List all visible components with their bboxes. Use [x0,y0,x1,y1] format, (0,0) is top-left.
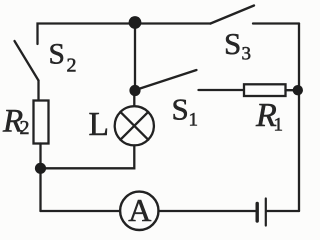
svg-text:A: A [128,192,151,228]
wire node to lamp [133,91,135,107]
svg-text:S: S [49,39,65,71]
lamp L cross [120,112,148,140]
wire left column lower [39,168,41,211]
wire S1 to R1 [199,89,245,91]
wire battery to right wall [267,210,299,212]
wire R2 to node [39,144,41,169]
switch S1 lever [140,70,197,89]
node right junction [293,85,303,95]
svg-text:S: S [224,26,241,61]
wire R1 to right wall [286,89,298,91]
svg-text:2: 2 [20,117,30,139]
svg-text:1: 1 [274,114,284,135]
svg-text:L: L [89,106,109,143]
wire top node to middle node [134,23,136,91]
battery positive plate [265,199,267,226]
wire top left segment [38,24,136,45]
resistor R2 [34,101,49,144]
svg-text:2: 2 [67,55,77,77]
wire top right segment [253,22,299,24]
battery negative plate [256,204,259,222]
resistor R1 [244,84,286,96]
node middle junction [129,85,140,96]
svg-text:3: 3 [242,44,252,65]
svg-text:1: 1 [189,110,199,131]
wire ammeter to battery [159,210,257,212]
wire bottom left segment [41,210,121,212]
lamp L circle [115,106,154,145]
wire top middle segment [135,22,211,24]
wire right wall [298,24,300,212]
switch S2 lever [15,41,39,81]
svg-text:S: S [172,91,189,126]
node top junction [129,16,142,29]
wire S2 to R2 [37,81,39,101]
switch S3 lever [211,6,255,24]
ammeter A circle [120,192,158,230]
node left junction [35,163,46,174]
wire lamp to bottom node [41,145,135,168]
